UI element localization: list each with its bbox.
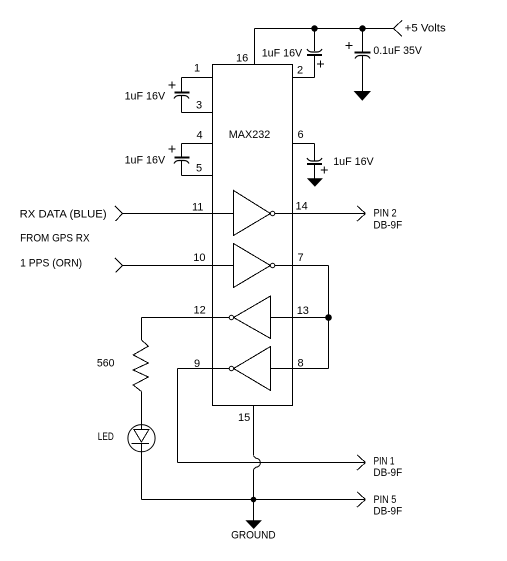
svg-text:0.1uF 35V: 0.1uF 35V: [373, 45, 422, 57]
svg-text:5: 5: [196, 163, 202, 175]
svg-text:LED: LED: [98, 431, 114, 443]
svg-text:DB-9F: DB-9F: [373, 506, 402, 518]
svg-text:+5 Volts: +5 Volts: [405, 23, 447, 35]
svg-text:16: 16: [236, 53, 248, 65]
svg-text:PIN 5: PIN 5: [374, 494, 397, 506]
svg-text:1uF 16V: 1uF 16V: [125, 155, 166, 167]
svg-text:DB-9F: DB-9F: [373, 467, 402, 479]
svg-text:1uF 16V: 1uF 16V: [262, 48, 303, 60]
svg-text:GROUND: GROUND: [231, 530, 276, 542]
svg-text:7: 7: [298, 252, 304, 264]
svg-text:DB-9F: DB-9F: [373, 220, 402, 232]
svg-text:13: 13: [297, 305, 309, 317]
svg-text:6: 6: [298, 129, 304, 141]
svg-text:1 PPS (ORN): 1 PPS (ORN): [20, 258, 82, 270]
svg-text:2: 2: [297, 65, 303, 77]
svg-text:1uF 16V: 1uF 16V: [333, 156, 374, 168]
svg-text:1: 1: [194, 63, 200, 75]
svg-text:560: 560: [97, 358, 115, 370]
svg-text:1uF 16V: 1uF 16V: [125, 91, 166, 103]
svg-text:RX DATA (BLUE): RX DATA (BLUE): [20, 209, 107, 221]
svg-text:MAX232: MAX232: [229, 129, 270, 141]
svg-text:15: 15: [238, 412, 250, 424]
svg-text:9: 9: [194, 358, 200, 370]
svg-text:PIN 1: PIN 1: [374, 456, 395, 468]
svg-text:FROM GPS RX: FROM GPS RX: [20, 233, 90, 245]
svg-text:14: 14: [296, 201, 308, 213]
svg-text:8: 8: [298, 358, 304, 370]
svg-text:11: 11: [192, 202, 203, 214]
svg-text:10: 10: [193, 252, 205, 264]
svg-text:12: 12: [194, 305, 206, 317]
svg-text:3: 3: [196, 100, 202, 112]
svg-text:4: 4: [197, 130, 203, 142]
svg-text:PIN 2: PIN 2: [374, 208, 397, 220]
